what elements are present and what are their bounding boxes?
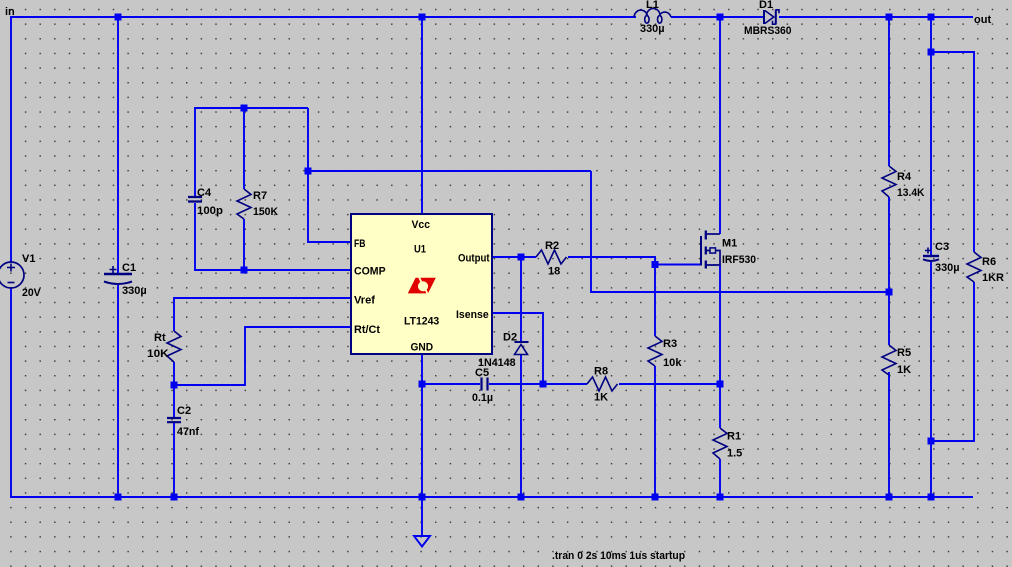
inductor L1 <box>634 0 671 35</box>
svg-text:20V: 20V <box>22 287 41 299</box>
wire left rail upper <box>10 16 12 262</box>
wire D2 lower lead <box>520 355 522 497</box>
transistor M1 <box>701 231 756 269</box>
resistor R6 <box>967 252 1004 284</box>
svg-text:Isense: Isense <box>456 309 489 321</box>
svg-text:IRF530: IRF530 <box>722 254 756 266</box>
wire R5 lower lead <box>888 372 890 497</box>
svg-text:Rt: Rt <box>154 332 166 344</box>
svg-text:150K: 150K <box>253 206 278 218</box>
node junction C1 top <box>115 14 122 21</box>
svg-text:FB: FB <box>354 238 366 250</box>
node junction gnd C3 <box>928 494 935 501</box>
wire C3 upper lead <box>930 17 932 256</box>
node junction R7 top <box>241 105 248 112</box>
resistor R2 <box>536 240 567 278</box>
diode D2 <box>478 332 529 370</box>
capacitor C1 <box>104 262 147 297</box>
node junction GND C5 row <box>419 381 426 388</box>
svg-text:0.1µ: 0.1µ <box>472 392 493 404</box>
svg-text:U1: U1 <box>414 244 426 256</box>
wire Vcc vertical <box>421 17 423 214</box>
wire top rail right segment <box>779 16 973 18</box>
svg-text:18: 18 <box>548 266 560 278</box>
wire D2 upper lead <box>520 257 522 341</box>
wire M1 drain vertical <box>719 17 721 234</box>
svg-text:47nf: 47nf <box>177 426 199 438</box>
svg-text:330µ: 330µ <box>640 23 665 35</box>
svg-text:COMP: COMP <box>354 266 386 278</box>
node junction FB tee <box>305 168 312 175</box>
wire Isense pin path <box>492 313 543 384</box>
svg-text:330µ: 330µ <box>122 285 147 297</box>
wire R3 upper lead <box>654 265 656 337</box>
svg-text:1K: 1K <box>897 364 911 376</box>
svg-text:1.5: 1.5 <box>727 448 742 460</box>
node junction gnd C1 <box>115 494 122 501</box>
node junction gnd C2 <box>171 494 178 501</box>
svg-text:1KR: 1KR <box>982 272 1004 284</box>
svg-text:100p: 100p <box>197 205 223 217</box>
capacitor C4 <box>188 187 223 217</box>
resistor Rt <box>147 331 181 362</box>
resistor R4 <box>882 166 925 199</box>
svg-text:out: out <box>974 14 991 26</box>
wire FB vertical <box>308 108 351 242</box>
svg-text:R3: R3 <box>663 338 677 350</box>
svg-text:R7: R7 <box>253 190 267 202</box>
wire C1 branch lower <box>117 285 119 497</box>
wire gate horizontal <box>655 264 700 266</box>
wire C2 upper lead <box>173 385 175 418</box>
svg-text:C1: C1 <box>122 262 136 274</box>
svg-text:R8: R8 <box>594 366 608 378</box>
wire top rail middle segment <box>671 16 763 18</box>
resistor R8 <box>587 366 618 404</box>
capacitor C2 <box>167 405 199 438</box>
svg-text:in: in <box>5 6 15 18</box>
wire C5 row middle <box>489 383 587 385</box>
svg-text:C5: C5 <box>475 367 489 379</box>
wire FB long horizontal <box>308 170 591 172</box>
node junction Isense row <box>540 381 547 388</box>
LT logo <box>408 277 436 295</box>
diode D1 MBRS360 <box>744 0 792 37</box>
wire RtCt pin path <box>174 327 351 385</box>
node junction R6 top <box>928 49 935 56</box>
svg-text:C2: C2 <box>177 405 191 417</box>
svg-text:Rt/Ct: Rt/Ct <box>354 324 380 336</box>
wire GND pin vertical <box>421 354 423 497</box>
wire R4 R5 middle <box>888 197 890 345</box>
svg-text:330µ: 330µ <box>935 262 960 274</box>
ground symbol <box>414 536 430 547</box>
node junction gnd GND pin <box>419 494 426 501</box>
wire FB down right <box>591 171 889 292</box>
wire R6 top branch <box>931 52 974 252</box>
node junction C3 top <box>928 14 935 21</box>
node junction gnd R1 <box>717 494 724 501</box>
wire C5 row left <box>422 383 480 385</box>
wire R4 upper lead <box>888 17 890 166</box>
wire Vref row <box>174 298 351 331</box>
node junction R8 source <box>717 381 724 388</box>
svg-text:GND: GND <box>411 342 434 354</box>
wire top rail left segment <box>11 16 636 18</box>
svg-text:R6: R6 <box>982 256 996 268</box>
wire Rt lower lead <box>173 362 175 385</box>
resistor R3 <box>648 336 682 369</box>
node junction R4 top <box>886 14 893 21</box>
svg-text:10k: 10k <box>663 357 682 369</box>
node junction FB divider <box>886 289 893 296</box>
svg-text:C3: C3 <box>935 241 949 253</box>
wire R6 bottom branch <box>931 282 974 441</box>
svg-text:Vref: Vref <box>354 295 375 307</box>
svg-text:Vcc: Vcc <box>412 219 431 231</box>
wire C1 branch upper <box>117 17 119 273</box>
wire C2 lower lead <box>173 423 175 497</box>
svg-text:10K: 10K <box>147 348 169 360</box>
svg-text:L1: L1 <box>646 0 659 11</box>
svg-text:R1: R1 <box>727 431 741 443</box>
svg-text:D1: D1 <box>759 0 773 11</box>
svg-text:C4: C4 <box>197 187 212 199</box>
svg-text:M1: M1 <box>722 238 737 250</box>
svg-text:13.4K: 13.4K <box>897 187 925 199</box>
wire C4 R7 top rail <box>195 107 308 109</box>
svg-text:R4: R4 <box>897 171 912 183</box>
resistor R7 <box>237 189 278 219</box>
svg-text:Output: Output <box>458 253 490 265</box>
wire left rail lower <box>10 288 12 498</box>
node junction gate tee <box>652 261 659 268</box>
wire C4 vertical upper <box>194 107 196 197</box>
node junction R7 bottom <box>241 267 248 274</box>
wire R7 vertical upper <box>243 108 245 189</box>
op-amp U1 LT1243 box <box>351 214 492 354</box>
svg-text:LT1243: LT1243 <box>404 316 439 328</box>
svg-text:MBRS360: MBRS360 <box>744 25 792 37</box>
svg-text:1K: 1K <box>594 392 608 404</box>
node junction R6 bottom <box>928 438 935 445</box>
node junction gnd D2 <box>518 494 525 501</box>
wire R3 lower lead <box>654 366 656 497</box>
svg-text:V1: V1 <box>22 253 35 265</box>
wire R7 vertical lower <box>243 219 245 270</box>
resistor R1 <box>713 428 742 460</box>
capacitor C5 <box>472 367 493 404</box>
capacitor C3 <box>923 241 960 274</box>
wire M1 source vertical <box>719 265 721 428</box>
node junction D2 output <box>518 254 525 261</box>
node junction gnd R3 <box>652 494 659 501</box>
node junction M1 drain top <box>717 14 724 21</box>
node junction Vcc top <box>419 14 426 21</box>
wire C3 lower lead <box>930 261 932 497</box>
wire R8 right lead <box>619 383 720 385</box>
resistor R5 <box>882 345 911 376</box>
node junction Rt C2 <box>171 382 178 389</box>
wire C4 vertical lower <box>194 203 196 271</box>
wire R1 lower lead <box>719 459 721 497</box>
wire ground stub <box>421 497 423 536</box>
svg-text:D2: D2 <box>503 332 517 344</box>
svg-text:R2: R2 <box>545 240 559 252</box>
svg-text:R5: R5 <box>897 347 911 359</box>
svg-text:.tran 0 2s 10ms 1us startup: .tran 0 2s 10ms 1us startup <box>552 550 685 562</box>
wire ground rail <box>11 496 973 498</box>
node junction gnd R5 <box>886 494 893 501</box>
wire R2 to gate corner <box>568 257 655 265</box>
wire COMP row <box>195 269 351 271</box>
voltage source V1 <box>0 253 41 299</box>
wire Output pin lead <box>492 256 536 258</box>
